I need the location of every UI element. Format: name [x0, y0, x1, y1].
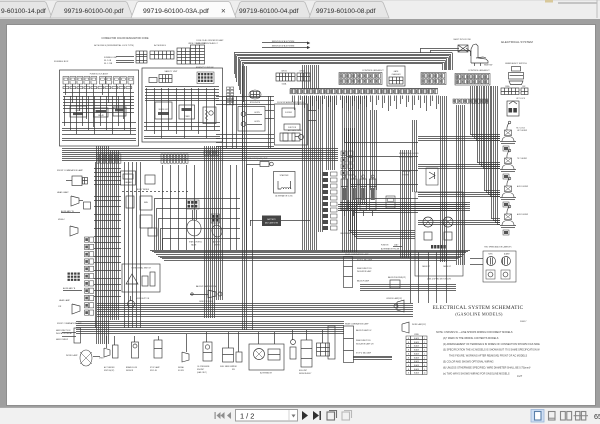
- svg-text:ALTERNATOR S 25K: ALTERNATOR S 25K: [275, 195, 293, 198]
- svg-text:65: 65: [594, 412, 600, 421]
- svg-text:SWITCH(OP): SWITCH(OP): [104, 370, 115, 372]
- svg-text:THIS FIGURE, WORKING AFTER RE(: THIS FIGURE, WORKING AFTER RE(MOVE) FRON…: [449, 355, 527, 358]
- svg-text:ROOM VIP ANNUNCIATOR GROUP: ROOM VIP ANNUNCIATOR GROUP: [277, 101, 306, 104]
- svg-text:BACKUP LAMP SWITCH: BACKUP LAMP SWITCH: [196, 285, 217, 288]
- svg-text:(2) ARRANGEMENT OF TERMINALS I: (2) ARRANGEMENT OF TERMINALS IN WIRES OF…: [443, 343, 540, 346]
- svg-text:LEVER: LEVER: [214, 245, 220, 247]
- svg-text:×: ×: [221, 7, 226, 16]
- svg-text:ENG UNIT: ENG UNIT: [299, 370, 307, 372]
- svg-text:SYSTEM: SYSTEM: [402, 175, 410, 177]
- svg-text:FUSIBLE LINK: FUSIBLE LINK: [104, 57, 117, 59]
- svg-text:LIFT LEVER: LIFT LEVER: [517, 130, 528, 132]
- svg-text:AUX GATE RELAY: AUX GATE RELAY: [288, 129, 303, 132]
- svg-text:ACTIVITY: ACTIVITY: [213, 241, 221, 244]
- svg-text:4W66-C: 4W66-C: [58, 219, 66, 221]
- svg-text:NORMALLY NO CLOSED: NORMALLY NO CLOSED: [399, 152, 419, 155]
- svg-text:SPARK UNIT: SPARK UNIT: [158, 108, 168, 111]
- svg-text:B: B: [408, 350, 409, 352]
- svg-text:STOP & TAIL LAMP: STOP & TAIL LAMP: [357, 259, 373, 262]
- svg-text:99719-60100-03A.pdf: 99719-60100-03A.pdf: [143, 8, 209, 15]
- svg-text:(6) UNLESS OTHERWISE SPECIFIED: (6) UNLESS OTHERWISE SPECIFIED, WIRE DIA…: [443, 366, 531, 369]
- svg-text:D9617: D9617: [520, 321, 527, 323]
- svg-text:STOP LAMP: STOP LAMP: [150, 366, 160, 369]
- svg-text:B: B: [408, 342, 409, 344]
- svg-text:B: B: [408, 338, 409, 340]
- svg-text:CHG2: CHG2: [299, 71, 305, 73]
- svg-text:CONTROLLER ASS'Y: CONTROLLER ASS'Y: [468, 69, 490, 72]
- svg-text:2: 2: [424, 342, 425, 344]
- svg-text:TURN SIGNAL SWITCH: TURN SIGNAL SWITCH: [131, 267, 151, 270]
- svg-text:(3) SPECIFICATION THE AC MODEL: (3) SPECIFICATION THE AC MODELS IS SHOWN…: [443, 349, 540, 352]
- svg-text:B: B: [408, 369, 409, 371]
- svg-text:CONTROLLER ASS'Y: CONTROLLER ASS'Y: [362, 69, 384, 72]
- svg-text:DISK & SPEED MOTOR (OP): DISK & SPEED MOTOR (OP): [427, 279, 451, 281]
- svg-text:LICENCE LAMP(OP): LICENCE LAMP(OP): [386, 297, 402, 300]
- svg-text:(GASOLINE MODELS): (GASOLINE MODELS): [455, 312, 503, 317]
- svg-text:BACKUP LAMP: BACKUP LAMP: [357, 280, 370, 283]
- svg-text:BLACK: BLACK: [414, 364, 420, 367]
- svg-text:TILT LEVER: TILT LEVER: [517, 158, 528, 160]
- svg-text:MAX DIRECTION: MAX DIRECTION: [56, 329, 71, 332]
- svg-text:B: B: [408, 353, 409, 355]
- svg-text:AMENITY DISPLAY: AMENITY DISPLAY: [196, 66, 214, 69]
- svg-text:MAX/COMB W: MAX/COMB W: [56, 338, 68, 341]
- svg-text:OIL PRESSURE: OIL PRESSURE: [197, 366, 210, 368]
- svg-text:AUX2 LEVER: AUX2 LEVER: [517, 213, 529, 216]
- svg-text:WORK LAMP(OP): WORK LAMP(OP): [412, 323, 426, 326]
- svg-text:CHG1: CHG1: [281, 71, 287, 73]
- svg-text:NO.SW: NO.SW: [178, 370, 184, 372]
- svg-text:9-60100-14.pdf: 9-60100-14.pdf: [1, 8, 46, 15]
- svg-text:CB2: CB2: [522, 86, 525, 88]
- svg-text:B: B: [408, 357, 409, 359]
- svg-text:ALARM: ALARM: [504, 253, 510, 256]
- svg-text:JUNCTION: JUNCTION: [288, 127, 297, 129]
- svg-text:AC MODELS (DIFFERENTIAL LOCK T: AC MODELS (DIFFERENTIAL LOCK TYPE): [94, 44, 134, 47]
- svg-text:STOP & TAIL LAMP: STOP & TAIL LAMP: [356, 352, 372, 355]
- svg-text:BLACK: BLACK: [414, 368, 420, 371]
- svg-text:BTM WHITE: BTM WHITE: [250, 102, 261, 104]
- svg-text:VALVE: VALVE: [191, 244, 197, 247]
- svg-text:GATE: GATE: [394, 70, 400, 73]
- svg-text:BACKUP BUZZER(OP): BACKUP BUZZER(OP): [388, 276, 406, 279]
- svg-text:SW: SW: [232, 369, 235, 371]
- svg-text:8: 8: [424, 365, 425, 367]
- svg-text:SAFETY UNIT: SAFETY UNIT: [165, 70, 179, 73]
- svg-text:F/L 2.0B: F/L 2.0B: [104, 60, 112, 62]
- svg-text:BLACK: BLACK: [414, 337, 420, 340]
- svg-text:99719-60100-00.pdf: 99719-60100-00.pdf: [64, 8, 124, 15]
- svg-text:FLICKER: FLICKER: [285, 112, 293, 114]
- svg-text:TIMER: TIMER: [184, 116, 190, 118]
- svg-text:STARTER: STARTER: [280, 174, 289, 177]
- svg-text:CABLE KIT: CABLE KIT: [422, 265, 430, 268]
- svg-text:BRAKE FLUID: BRAKE FLUID: [126, 366, 138, 369]
- svg-text:F/L 1.25B: F/L 1.25B: [104, 63, 113, 65]
- svg-text:BLACK: BLACK: [414, 372, 420, 375]
- svg-text:9: 9: [424, 369, 425, 371]
- svg-text:CODE OF ALL INDICATOR LAMP: CODE OF ALL INDICATOR LAMP: [196, 39, 224, 42]
- svg-text:AUXILIARY B: AUXILIARY B: [63, 287, 76, 290]
- svg-text:INDICATOR LAMP 12V: INDICATOR LAMP 12V: [356, 343, 375, 346]
- svg-text:CHARGER: CHARGER: [392, 73, 402, 76]
- svg-text:6: 6: [424, 357, 425, 359]
- svg-text:SW 2-1B: SW 2-1B: [150, 370, 158, 372]
- svg-text:TILT LOCK: TILT LOCK: [516, 128, 526, 130]
- svg-text:FUSIBLE BOX: FUSIBLE BOX: [54, 61, 69, 63]
- svg-text:B: B: [408, 365, 409, 367]
- svg-text:ELECTRICAL SYSTEM SCHEMATIC: ELECTRICAL SYSTEM SCHEMATIC: [433, 305, 524, 311]
- svg-text:B: B: [408, 373, 409, 375]
- svg-text:FRONT COMBINATION LAMP: FRONT COMBINATION LAMP: [57, 322, 82, 325]
- svg-text:ANN: ANN: [144, 201, 148, 204]
- svg-text:25A?: 25A?: [394, 244, 398, 247]
- svg-text:NOTE: CHASSIS W —LINE SHOWS W: NOTE: CHASSIS W —LINE SHOWS WIRING FOR D…: [436, 331, 513, 334]
- svg-text:REAR DIRECTION: REAR DIRECTION: [356, 339, 371, 342]
- svg-text:99719-60100-08.pdf: 99719-60100-08.pdf: [316, 8, 376, 15]
- svg-text:1: 1: [424, 338, 425, 340]
- svg-text:SW/UNIT: SW/UNIT: [197, 369, 204, 371]
- svg-text:SHIFT INTLCK SW: SHIFT INTLCK SW: [453, 39, 470, 41]
- svg-text:4: 4: [424, 350, 425, 352]
- svg-text:DIRECT MODELS: DIRECT MODELS: [199, 301, 214, 303]
- svg-text:WIRE CONTENTS AND LT: WIRE CONTENTS AND LT: [196, 42, 219, 45]
- svg-text:LIFT LOCK: LIFT LOCK: [516, 98, 526, 100]
- svg-text:(n) TWO WAYS SHOWS WIRING FOR: (n) TWO WAYS SHOWS WIRING FOR GASOLINE M…: [443, 372, 510, 375]
- svg-text:HEAD LAMP: HEAD LAMP: [59, 299, 71, 302]
- svg-text:REAR COMBINATION LAMP: REAR COMBINATION LAMP: [345, 323, 369, 326]
- svg-text:HEAD LAMP: HEAD LAMP: [57, 191, 69, 194]
- svg-text:SERIAL: SERIAL: [178, 366, 184, 369]
- svg-text:BLACK: BLACK: [414, 341, 420, 344]
- svg-text:STAR CONTROL: STAR CONTROL: [189, 241, 202, 244]
- svg-text:(5) COLOR AND SHOWS OPTIONAL W: (5) COLOR AND SHOWS OPTIONAL WIRING: [443, 361, 494, 364]
- svg-text:INDICATOR LAMP: INDICATOR LAMP: [357, 270, 372, 273]
- svg-text:CAB WIRES: CAB WIRES: [340, 232, 351, 235]
- svg-text:WORK LAMP: WORK LAMP: [66, 354, 78, 357]
- svg-text:FRONT COMBINATION LAMP: FRONT COMBINATION LAMP: [57, 169, 84, 172]
- svg-text:SERVICE W A SYSTEM: SERVICE W A SYSTEM: [272, 45, 295, 48]
- svg-text:BATTERY: BATTERY: [267, 218, 276, 221]
- svg-text:EMERGENCY SWITCH: EMERGENCY SWITCH: [505, 63, 527, 65]
- svg-text:AUX1 LEVER: AUX1 LEVER: [517, 185, 529, 188]
- svg-text:BACKUP LAMP 12V: BACKUP LAMP 12V: [356, 329, 372, 332]
- svg-text:BODY WIRES: BODY WIRES: [137, 189, 150, 191]
- svg-text:FUSE BLOCK ASSY: FUSE BLOCK ASSY: [90, 73, 109, 76]
- svg-text:SEAT SW: SEAT SW: [484, 64, 493, 67]
- svg-text:B: B: [408, 346, 409, 348]
- svg-text:TURN: TURN: [488, 254, 493, 256]
- svg-text:(GAS ONLY): (GAS ONLY): [197, 371, 207, 374]
- svg-text:AC MODELS: AC MODELS: [154, 44, 166, 47]
- svg-text:A/C THERMO: A/C THERMO: [104, 366, 115, 369]
- svg-text:1 / 2: 1 / 2: [240, 411, 254, 420]
- svg-text:ENGINE STOP(GAS) UNIT: ENGINE STOP(GAS) UNIT: [244, 157, 268, 160]
- svg-text:HORN: HORN: [254, 112, 260, 114]
- svg-text:CB1A: CB1A: [505, 85, 510, 88]
- svg-text:99719-60100-04.pdf: 99719-60100-04.pdf: [239, 8, 299, 15]
- svg-text:3-27: 3-27: [517, 374, 523, 378]
- svg-text:D40A: D40A: [282, 83, 287, 86]
- svg-text:(A)* MARK IN THE WIRING CONTEN: (A)* MARK IN THE WIRING CONTENTS MODELS: [443, 337, 499, 340]
- svg-text:REAR DIRECTION: REAR DIRECTION: [357, 267, 372, 270]
- svg-text:ELECTRICAL SYSTEM: ELECTRICAL SYSTEM: [501, 40, 533, 44]
- svg-text:FUSE W/: FUSE W/: [381, 245, 389, 247]
- svg-text:BLACK: BLACK: [414, 349, 420, 352]
- svg-text:10: 10: [424, 373, 426, 375]
- svg-text:RELAY: RELAY: [98, 114, 105, 117]
- svg-text:(PRESSURIZED): (PRESSURIZED): [399, 157, 413, 159]
- svg-text:TWO SPEED AND/OR LAMP(OP): TWO SPEED AND/OR LAMP(OP): [484, 246, 512, 249]
- svg-text:WIRE: WIRE: [414, 334, 419, 336]
- svg-text:SENSOR ASS'Y: SENSOR ASS'Y: [299, 372, 312, 375]
- svg-text:CONNECTOR COLOR DESIGNATION: CONNECTOR COLOR DESIGNATION CODE: [101, 37, 149, 40]
- svg-text:ALTERNATOR PULSE: ALTERNATOR PULSE: [381, 248, 400, 251]
- svg-text:BLACK: BLACK: [414, 360, 420, 363]
- svg-text:BLACK: BLACK: [414, 356, 420, 359]
- svg-text:BLACK: BLACK: [414, 352, 420, 355]
- svg-text:3: 3: [424, 346, 425, 348]
- svg-text:HORN BUTTON: HORN BUTTON: [136, 298, 150, 300]
- svg-text:OTHR: OTHR: [232, 366, 238, 368]
- svg-text:B: B: [408, 361, 409, 363]
- svg-text:BLACK: BLACK: [414, 345, 420, 348]
- svg-text:HORN: HORN: [254, 121, 260, 123]
- svg-text:HARNESS: HARNESS: [402, 170, 411, 173]
- svg-text:ALTERNATOR: ALTERNATOR: [260, 372, 272, 375]
- svg-text:7: 7: [424, 361, 425, 363]
- svg-text:REAR COMBINATION LAMP: REAR COMBINATION LAMP: [345, 253, 369, 256]
- svg-text:CABLE KIT: CABLE KIT: [443, 265, 451, 268]
- svg-text:5: 5: [424, 353, 425, 355]
- svg-text:C/R: C/R: [58, 306, 62, 308]
- svg-text:SENSOR: SENSOR: [126, 370, 134, 372]
- svg-text:4W66: 4W66: [99, 358, 103, 360]
